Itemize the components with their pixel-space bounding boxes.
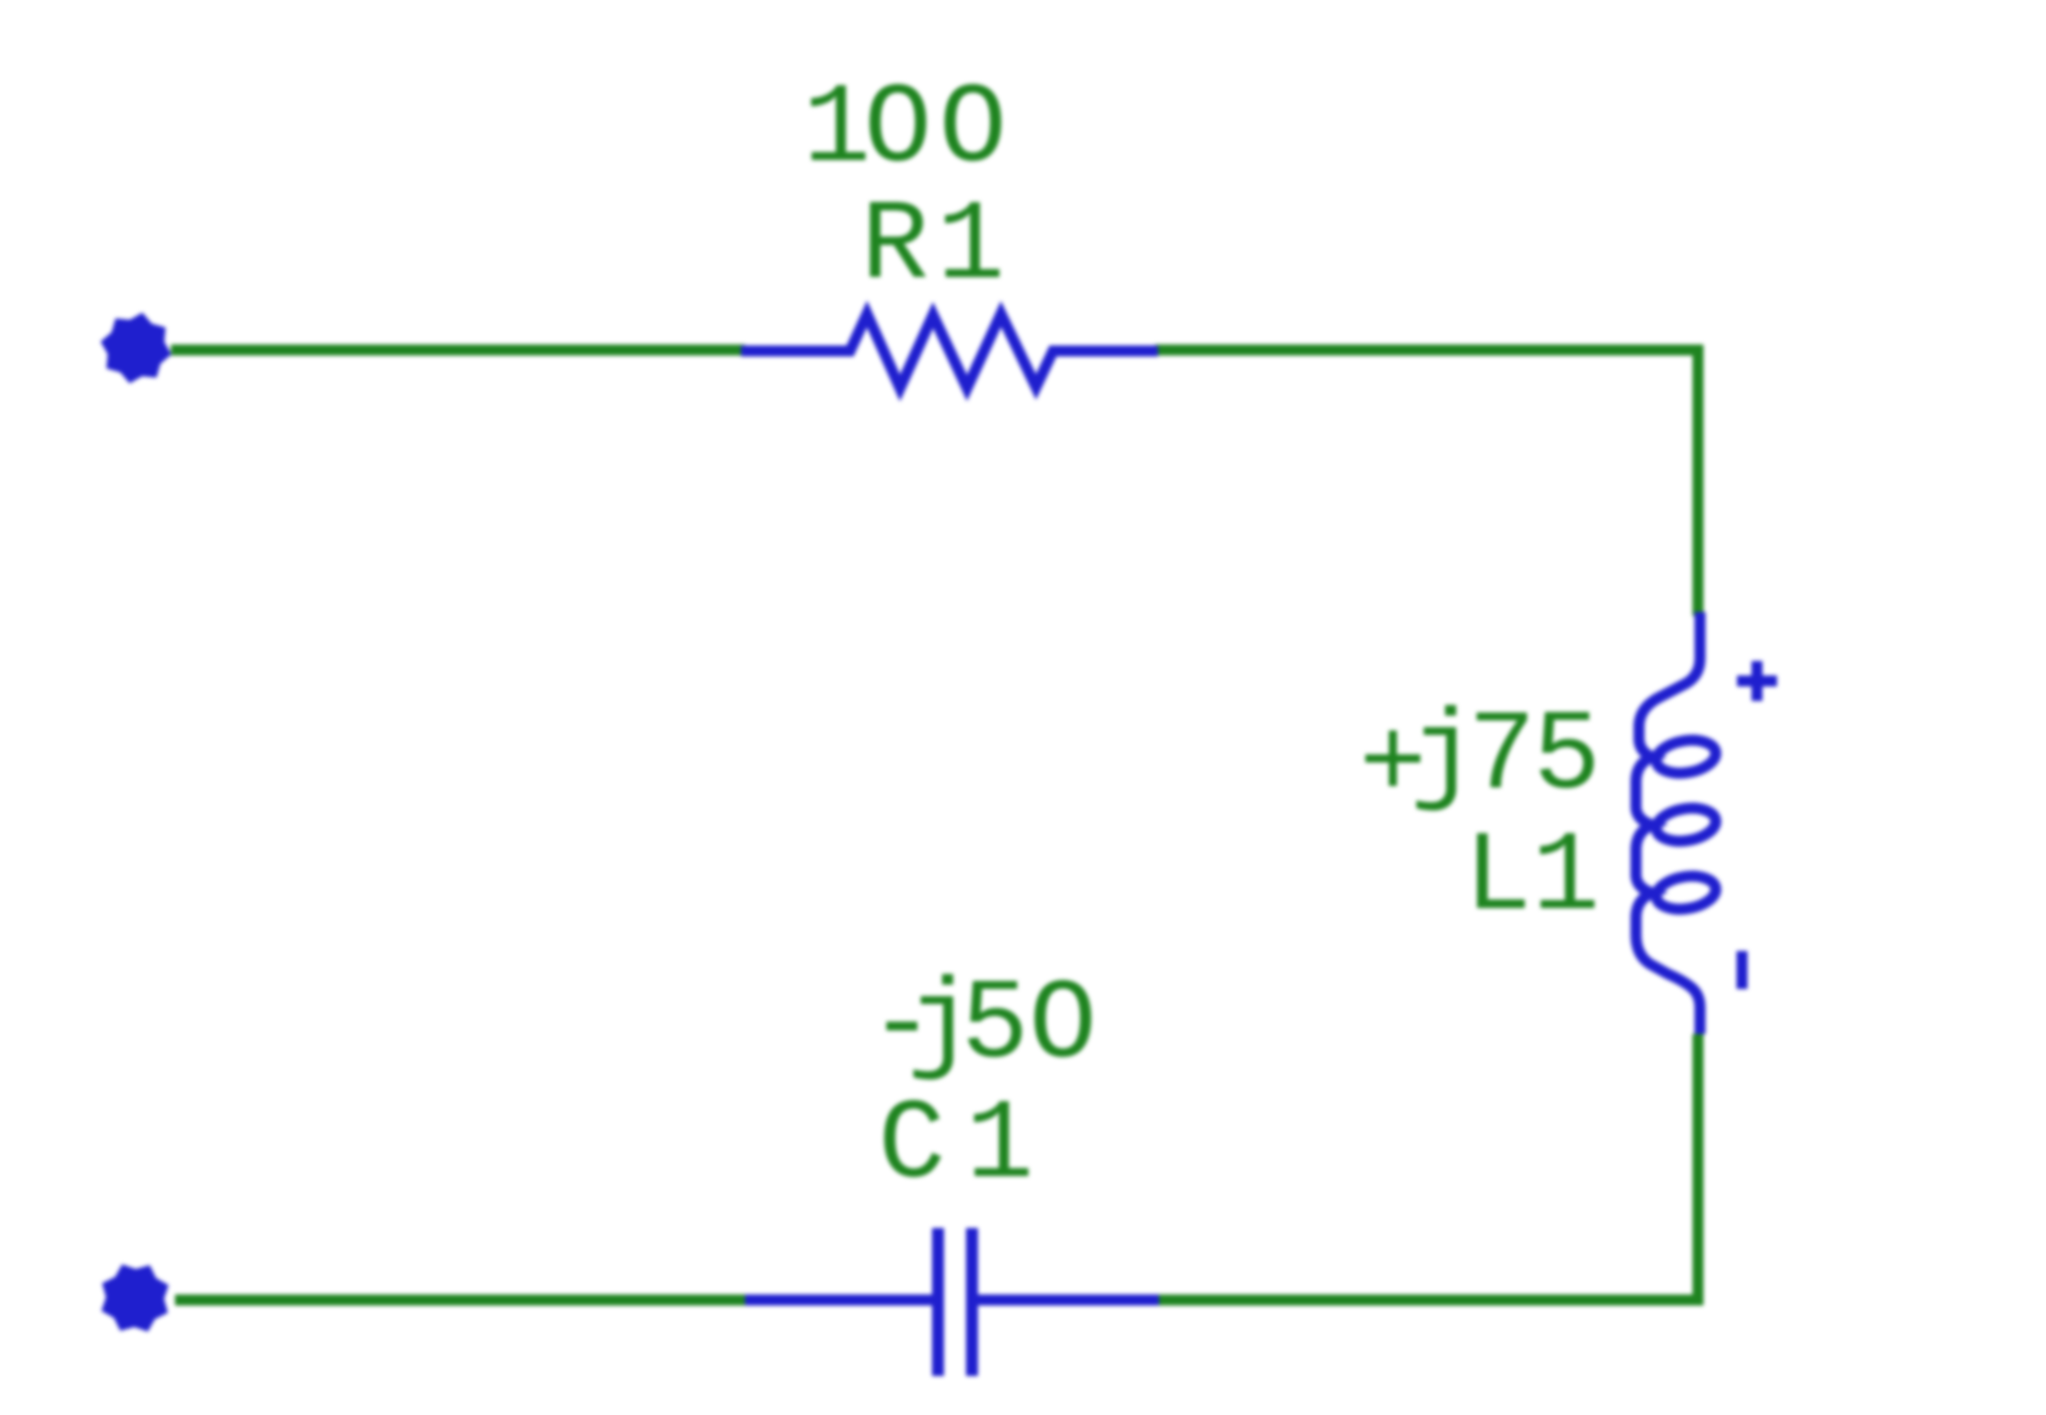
svg-text:-j5O: -j5O bbox=[868, 962, 1097, 1090]
svg-text:+j75: +j75 bbox=[1359, 693, 1601, 830]
svg-text:L1: L1 bbox=[1464, 814, 1600, 942]
svg-text:C1: C1 bbox=[878, 1082, 1034, 1210]
svg-text:1OO: 1OO bbox=[803, 66, 1007, 194]
svg-text:R1: R1 bbox=[861, 183, 1005, 311]
